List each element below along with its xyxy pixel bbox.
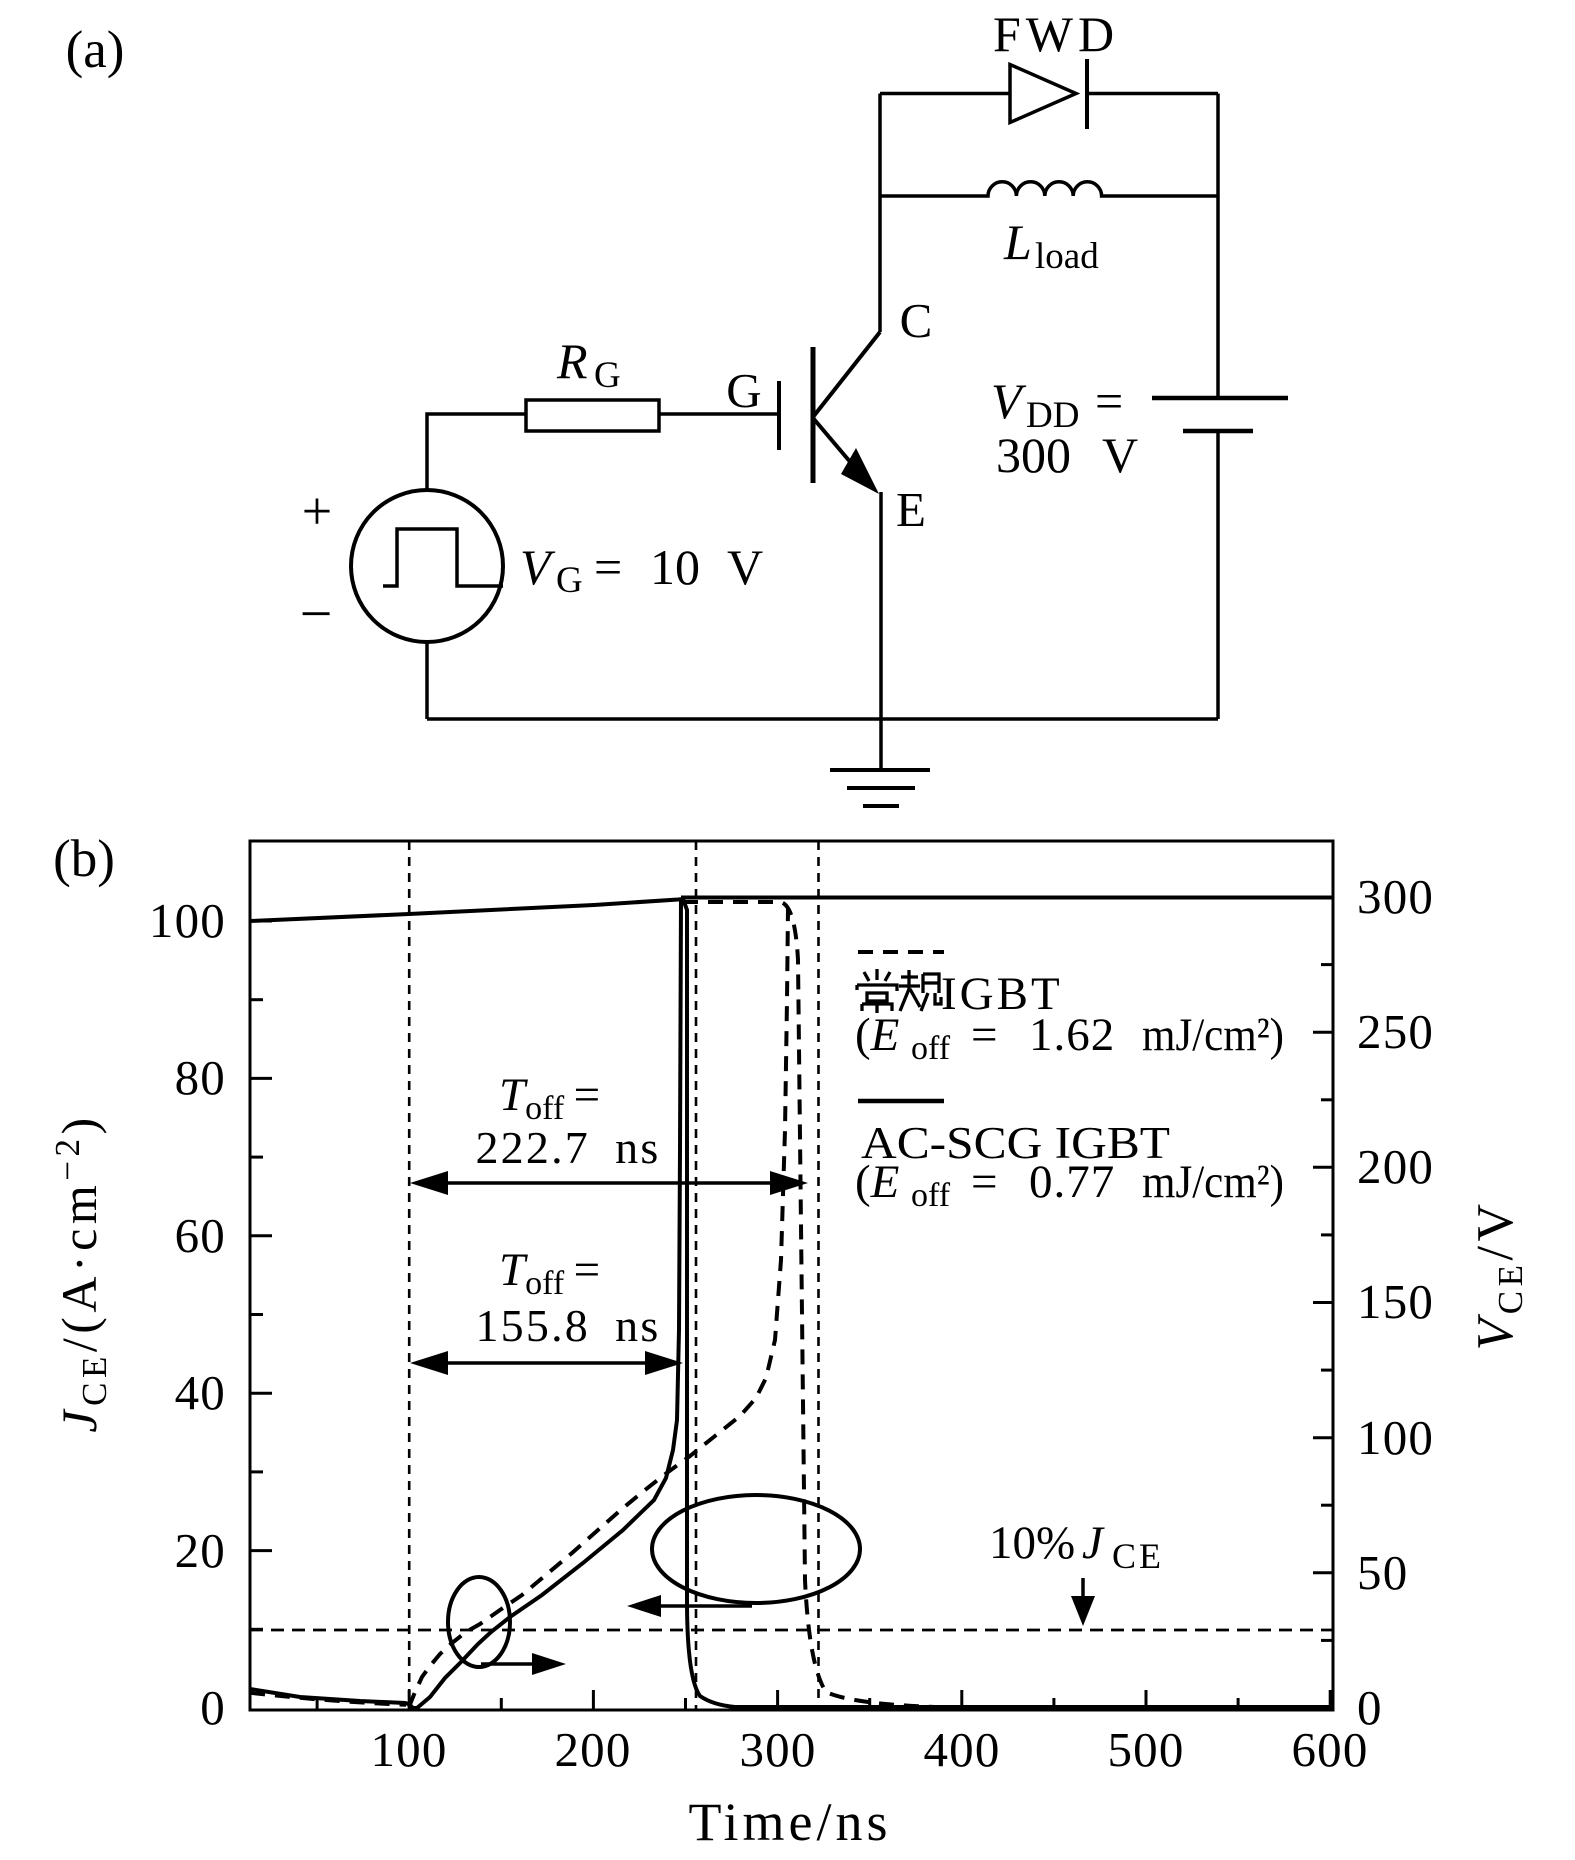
svg-text:−: −: [300, 581, 333, 646]
svg-text:200: 200: [1357, 1139, 1434, 1194]
svg-text:40: 40: [175, 1365, 226, 1420]
svg-text:off: off: [911, 1030, 951, 1067]
svg-text:E: E: [896, 482, 926, 537]
svg-text:L: L: [1003, 214, 1032, 270]
right arrow from small ellipse: [481, 1662, 540, 1666]
dashed curve: conventional IGBT current JCE top flat and drop: [683, 902, 935, 1707]
solid curve: VCE flat 300 V: [681, 896, 1333, 900]
svg-text:G: G: [726, 363, 761, 418]
svg-text:(E: (E: [855, 1156, 899, 1208]
wire source bottom to rail: [425, 642, 429, 719]
svg-text:V: V: [1102, 427, 1138, 483]
down arrow 10% JCE: [1081, 1578, 1085, 1604]
vertical dashed gridline t=255.8: [695, 841, 698, 1710]
resistor RG: [526, 400, 659, 431]
svg-text:200: 200: [554, 1722, 631, 1777]
svg-text:250: 250: [1357, 1004, 1434, 1059]
wire source top to resistor: [427, 414, 526, 490]
ground: [830, 770, 930, 806]
wire emitter down: [879, 492, 883, 770]
svg-text:off: off: [911, 1177, 951, 1214]
freewheeling diode FWD: [880, 92, 1010, 96]
svg-text:100: 100: [370, 1722, 447, 1777]
svg-text:400: 400: [923, 1722, 1000, 1777]
left tick labels: [149, 893, 226, 1735]
svg-text:100: 100: [1357, 1410, 1434, 1465]
svg-text:Time/ns: Time/ns: [688, 1792, 891, 1852]
IGBT Q1: [779, 332, 880, 494]
svg-text:0.77: 0.77: [1029, 1156, 1115, 1208]
x tick labels: [370, 1722, 1368, 1777]
double arrow 155.8 ns: [424, 1361, 668, 1365]
battery VDD: [1216, 94, 1220, 399]
svg-text:=: =: [971, 1156, 998, 1208]
svg-text:500: 500: [1107, 1722, 1184, 1777]
svg-text:150: 150: [1357, 1274, 1434, 1329]
small ellipse marker: [448, 1577, 510, 1667]
big ellipse marker: [652, 1495, 860, 1603]
svg-text:20: 20: [175, 1523, 226, 1578]
bottom rail wire: [427, 717, 1218, 721]
horizontal dashed line 10% JCE: [250, 1629, 1333, 1632]
svg-text:FWD: FWD: [993, 6, 1119, 62]
dashed curve: conventional IGBT VCE rise: [409, 908, 788, 1707]
legend dashed sample: [858, 950, 944, 954]
svg-text:mJ/cm²): mJ/cm²): [1142, 1009, 1284, 1061]
svg-text:=: =: [971, 1009, 998, 1061]
dashed curve: conventional IGBT VCE on-state (t<100): [250, 1693, 406, 1705]
solid curve: AC-SCG IGBT VCE on-state and rise: [250, 898, 681, 1708]
svg-text:100: 100: [149, 893, 226, 948]
svg-text:222.7 ns: 222.7 ns: [475, 1122, 660, 1173]
svg-text:300: 300: [739, 1722, 816, 1777]
svg-text:155.8 ns: 155.8 ns: [475, 1300, 660, 1351]
svg-text:(a): (a): [66, 21, 125, 79]
legend text conventional IGBT (Chinese changgui): [857, 969, 897, 1013]
left arrow from big ellipse: [650, 1604, 752, 1608]
svg-text:0: 0: [200, 1680, 226, 1735]
svg-text:50: 50: [1357, 1545, 1408, 1600]
svg-text:G: G: [556, 560, 583, 601]
pulse voltage source VG: [351, 490, 503, 642]
axis ticks: [250, 897, 1333, 1710]
svg-text:CE: CE: [1112, 1536, 1164, 1576]
svg-text:J: J: [1082, 1517, 1105, 1569]
svg-text:mJ/cm²): mJ/cm²): [1142, 1156, 1284, 1208]
svg-text:V: V: [727, 539, 763, 595]
svg-text:300: 300: [996, 427, 1071, 483]
svg-text:300: 300: [1357, 869, 1434, 924]
wire collector to top rail: [878, 94, 882, 333]
svg-text:10: 10: [650, 539, 700, 595]
wire RG to gate: [659, 412, 777, 416]
svg-text:(E: (E: [855, 1009, 899, 1061]
right tick labels: [1357, 869, 1434, 1735]
vertical dashed gridline t=322.7: [817, 841, 820, 1710]
double arrow 222.7 ns: [424, 1181, 794, 1185]
svg-text:(b): (b): [53, 830, 115, 888]
svg-text:=: =: [594, 539, 622, 595]
svg-text:AC-SCG IGBT: AC-SCG IGBT: [861, 1118, 1170, 1168]
vertical dashed gridline t=100: [408, 841, 411, 1710]
svg-text:R: R: [556, 333, 588, 389]
svg-text:0: 0: [1357, 1680, 1383, 1735]
svg-text:G: G: [594, 355, 621, 396]
svg-text:10%: 10%: [989, 1517, 1075, 1569]
solid curve: AC-SCG IGBT current JCE: [250, 899, 1333, 1707]
svg-text:+: +: [302, 481, 332, 541]
plot frame: [250, 841, 1333, 1710]
svg-text:1.62: 1.62: [1029, 1009, 1115, 1061]
svg-text:C: C: [900, 293, 933, 348]
legend solid sample: [858, 1099, 944, 1104]
svg-text:load: load: [1035, 236, 1099, 277]
svg-text:80: 80: [175, 1050, 226, 1105]
svg-text:60: 60: [175, 1208, 226, 1263]
load inductor Lload: [880, 182, 1218, 196]
svg-text:=: =: [1095, 373, 1123, 429]
